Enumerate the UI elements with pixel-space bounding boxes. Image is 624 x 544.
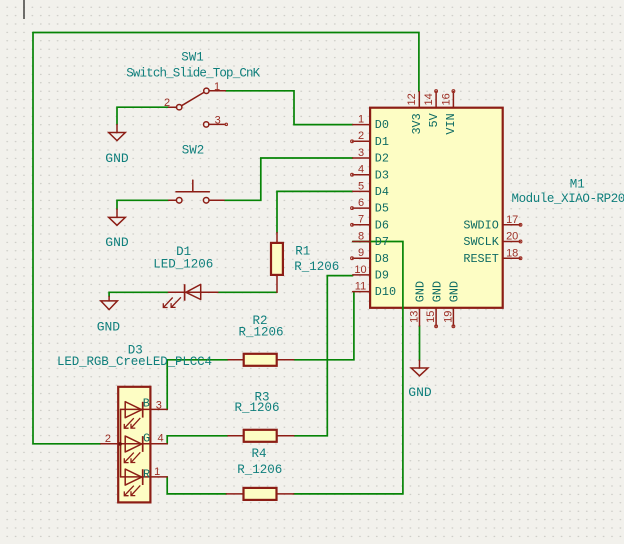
module M1 pins top [419,92,453,108]
svg-text:D8: D8 [375,252,389,266]
junction at RGB LED pin 2 [118,442,122,446]
ground GND3 (D1) [101,297,118,310]
svg-text:GND: GND [105,151,129,166]
LED G row [101,443,167,445]
svg-text:10: 10 [354,264,366,276]
svg-text:R_1206: R_1206 [294,260,339,274]
svg-text:R_1206: R_1206 [238,326,283,340]
module M1 pins right [503,225,521,258]
wire R1 top to module D4 [277,191,353,232]
wire R4 right to module D7 [294,242,403,494]
svg-text:GND: GND [408,385,432,400]
svg-text:Switch_Slide_Top_CnK: Switch_Slide_Top_CnK [126,66,260,80]
wire SW1 pin2 to GND [117,107,169,124]
svg-text:D4: D4 [375,185,389,199]
LED D1 [163,284,218,307]
svg-text:15: 15 [425,311,437,323]
svg-text:14: 14 [423,93,435,105]
wire R2 right to module D10 [294,292,354,360]
svg-text:18: 18 [506,247,518,259]
resistor R1 [271,233,283,293]
svg-text:R: R [143,468,150,482]
wire SW2 left to GND [117,200,169,209]
svg-text:3: 3 [215,114,221,126]
svg-text:SW1: SW1 [181,50,204,64]
svg-text:SWDIO: SWDIO [463,218,498,232]
svg-text:1: 1 [214,81,220,93]
svg-text:D2: D2 [375,152,389,166]
svg-text:5V: 5V [427,112,441,127]
svg-text:RESET: RESET [463,252,498,266]
ground GND4 (module pin 13) [411,360,428,376]
svg-text:13: 13 [409,311,421,323]
svg-text:2: 2 [105,433,111,445]
svg-text:12: 12 [406,93,418,105]
svg-text:R_1206: R_1206 [234,401,279,415]
svg-text:D6: D6 [375,218,389,232]
svg-text:D3: D3 [375,168,389,182]
ground GND2 (SW2) [109,209,126,225]
resistor R3 [228,430,294,442]
unconnected pin circles left (pins 2,4,6,7,9) [351,140,354,143]
svg-text:B: B [143,397,150,411]
svg-text:2: 2 [164,97,170,109]
svg-text:R4: R4 [251,447,266,461]
svg-text:4: 4 [157,433,163,445]
wire R3 right to module D9 [294,276,353,436]
svg-text:17: 17 [506,214,518,226]
svg-text:9: 9 [358,247,364,259]
wire 3V3 net: top bus from left border to pin 12 [33,33,419,92]
svg-text:VIN: VIN [444,113,458,134]
wire SW1 pin1 to module D0 [225,91,352,125]
RGB LED D3 body [101,387,167,503]
svg-text:3: 3 [156,399,162,411]
anode bus [120,409,122,477]
LED B row [121,408,168,410]
svg-text:GND: GND [448,281,462,302]
svg-text:G: G [143,432,150,446]
svg-text:6: 6 [358,197,364,209]
svg-text:GND: GND [105,235,129,250]
svg-text:LED_1206: LED_1206 [153,258,213,272]
ground GND1 (SW1) [109,125,126,141]
switch SW1 [169,88,228,127]
svg-text:D10: D10 [375,285,396,299]
svg-text:Module_XIAO-RP2040: Module_XIAO-RP2040 [512,192,624,206]
svg-text:M1: M1 [570,177,585,191]
svg-text:SW2: SW2 [182,144,205,158]
module U/M1 body [370,108,503,308]
wire RGB pin3 B to R2 left [167,360,228,410]
svg-text:D0: D0 [375,118,389,132]
svg-text:3V3: 3V3 [410,113,424,134]
svg-text:GND: GND [414,281,428,302]
svg-text:16: 16 [440,93,452,105]
svg-text:3: 3 [358,147,364,159]
svg-text:1: 1 [358,114,364,126]
switch SW2 [169,180,225,203]
module M1 pins bottom [420,308,454,326]
svg-text:D7: D7 [375,235,389,249]
wire left border vertical to RGB LED pin 2 [33,33,101,444]
svg-text:D5: D5 [375,202,389,216]
svg-text:5: 5 [358,180,364,192]
svg-text:4: 4 [358,164,364,176]
LED R row [121,476,168,478]
wire D1 anode to R1 bottom [218,291,277,293]
module M1 pins left [353,125,370,292]
svg-text:SWCLK: SWCLK [463,235,499,249]
svg-text:8: 8 [358,230,364,242]
svg-text:D9: D9 [375,269,389,283]
resistor R2 [228,354,294,366]
resistor R4 [226,488,293,500]
svg-text:11: 11 [355,281,366,293]
svg-text:D1: D1 [375,135,389,149]
svg-text:R1: R1 [295,244,310,258]
svg-text:GND: GND [97,320,121,335]
svg-text:GND: GND [430,281,444,302]
wire RGB pin1 R to R4 left [167,477,226,494]
wire module pin13 GND to ground symbol [419,326,421,360]
wire SW2 right to module D2 [224,158,353,200]
svg-text:R_1206: R_1206 [237,463,282,477]
svg-text:LED_RGB_CreeLED_PLCC4: LED_RGB_CreeLED_PLCC4 [57,355,212,369]
svg-text:2: 2 [358,130,364,142]
wire RGB pin4 G to R3 left [167,436,228,444]
svg-text:1: 1 [154,466,160,478]
svg-text:7: 7 [358,214,364,226]
svg-text:19: 19 [442,311,454,323]
wire D1 cathode to GND [109,292,168,296]
svg-text:20: 20 [506,231,518,243]
page border fragment [23,0,25,19]
